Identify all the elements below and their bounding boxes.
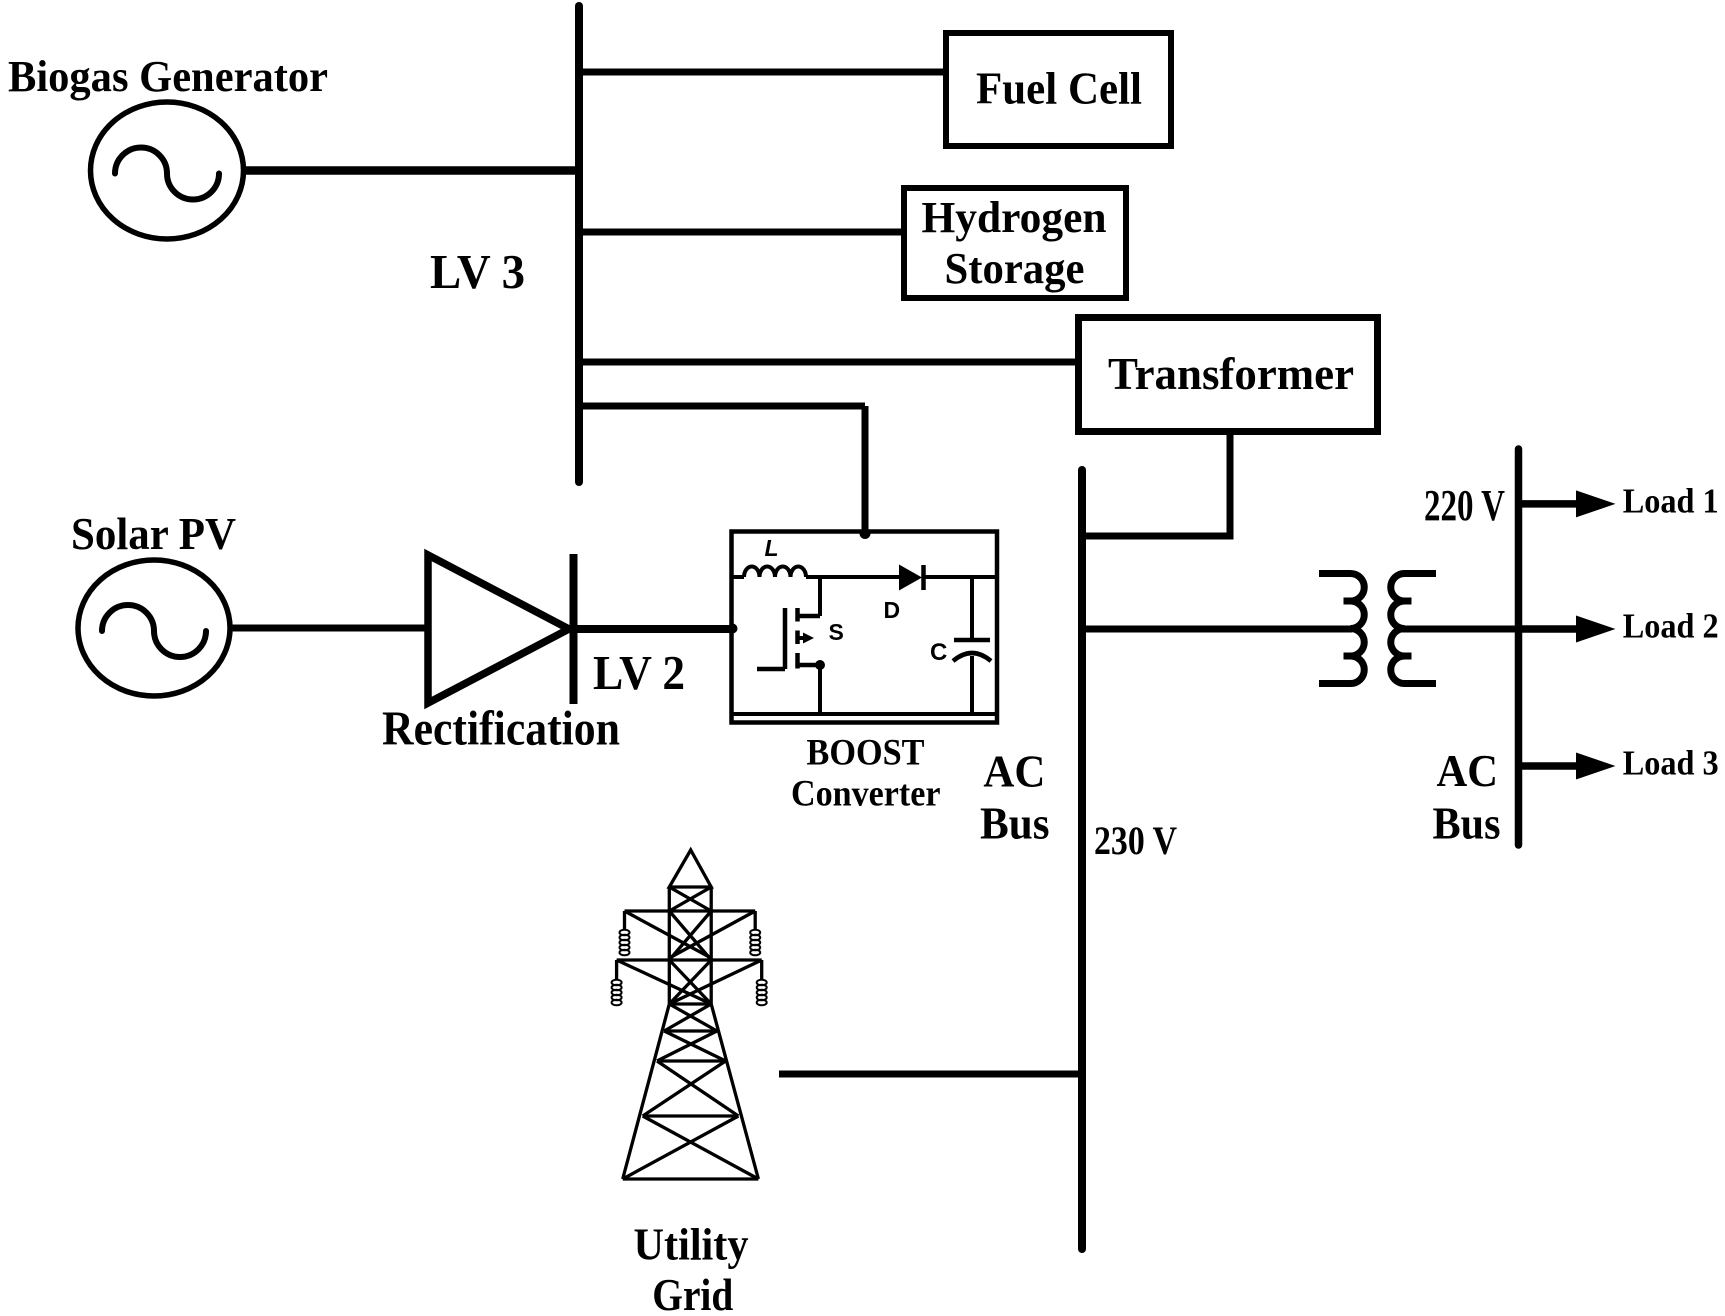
tower column X brace mid: [669, 911, 711, 960]
junction dot boost input: [728, 624, 738, 634]
tower column left: [668, 887, 671, 1004]
wire LV3 bus to Fuel Cell: [579, 69, 948, 76]
wire capacitor branch top: [970, 577, 974, 640]
wire boost top rail middle: [806, 575, 899, 579]
diode D triangle: [899, 565, 922, 591]
inductor L: [744, 567, 806, 578]
tower top box X brace: [669, 887, 711, 911]
wire capacitor branch bottom: [970, 656, 974, 714]
load 1 arrow head: [1576, 490, 1616, 517]
load 3 arrow head: [1576, 753, 1616, 780]
wire transformer box down: [1227, 432, 1234, 537]
capacitor C top plate: [954, 638, 990, 643]
generator G1 sine symbol: [115, 148, 219, 200]
wire switch branch source to rail: [818, 665, 822, 714]
capacitor C curved plate: [953, 653, 991, 661]
junction dot mosfet source: [815, 660, 825, 670]
wire solar to rectifier: [228, 625, 428, 632]
junction dot boost top: [860, 528, 871, 539]
wire boost top rail right: [922, 575, 995, 579]
svg-text:Rectification: Rectification: [382, 701, 620, 756]
tower X brace base: [623, 1116, 759, 1179]
svg-text:LV 2: LV 2: [593, 645, 685, 700]
svg-text:Grid: Grid: [652, 1270, 733, 1316]
rectifier triangle: [428, 555, 569, 703]
wire transformer T2 secondary to right AC bus: [1402, 626, 1520, 633]
utility grid tower: [617, 850, 762, 1179]
mosfet source lead: [798, 663, 820, 668]
tower X brace flared 2: [657, 1031, 726, 1061]
svg-text:230 V: 230 V: [1094, 818, 1177, 863]
svg-text:Converter: Converter: [791, 774, 941, 815]
bus AC right: [1515, 449, 1523, 845]
bus LV3: [575, 6, 583, 482]
load 2 arrow head: [1576, 616, 1616, 643]
wire AC bus to transformer T2 primary: [1082, 626, 1352, 633]
svg-text:Biogas Generator: Biogas Generator: [8, 52, 328, 101]
transformer T2 primary coil: [1319, 574, 1364, 684]
load 2 feeder wire: [1518, 625, 1585, 633]
tower lower left dropper: [615, 960, 618, 979]
svg-text:L: L: [765, 535, 779, 561]
tower lower right dropper: [760, 960, 763, 979]
transformer T2 secondary coil: [1391, 574, 1436, 684]
tower rung 1 flared: [664, 1029, 717, 1032]
wire biogas generator to LV3 bus: [242, 166, 580, 175]
svg-text:LV 3: LV 3: [430, 244, 525, 299]
wire LV3 bus to Hydrogen Storage: [579, 229, 906, 236]
svg-text:D: D: [884, 597, 901, 623]
bus AC middle: [1078, 470, 1086, 1249]
mosfet channel dash middle: [795, 631, 800, 645]
mosfet body arrow line: [798, 636, 804, 640]
hydrogen storage box: [904, 188, 1126, 298]
svg-text:Utility: Utility: [634, 1220, 749, 1270]
diode D cathode bar: [921, 565, 926, 590]
tower column right: [710, 887, 713, 1004]
bus LV2 bar: [570, 554, 578, 704]
boost inner bottom rail: [733, 712, 995, 716]
svg-text:Hydrogen: Hydrogen: [922, 193, 1107, 242]
tower apex: [669, 850, 711, 887]
svg-text:AC: AC: [1437, 746, 1499, 796]
insulator lower right: [757, 980, 767, 1006]
svg-text:C: C: [930, 639, 947, 666]
svg-text:Bus: Bus: [980, 799, 1050, 849]
insulator lower left: [612, 980, 622, 1006]
wire switch branch drain: [818, 577, 822, 616]
svg-text:Storage: Storage: [945, 244, 1085, 293]
svg-text:Load 1: Load 1: [1623, 482, 1719, 521]
wire LV3 bus to Transformer: [579, 359, 1080, 366]
mosfet gate lead: [757, 667, 785, 672]
mosfet body arrow head: [803, 633, 814, 644]
svg-text:Bus: Bus: [1433, 799, 1501, 849]
insulator upper right: [750, 930, 760, 956]
solar PV AC source circle: [78, 560, 230, 696]
tower rung 3 flared: [643, 1114, 739, 1117]
svg-text:Fuel Cell: Fuel Cell: [976, 63, 1142, 114]
tower base: [623, 1177, 759, 1180]
tower rung 2 flared: [657, 1059, 726, 1062]
svg-text:S: S: [829, 619, 844, 645]
tower upper arm diagonals: [625, 911, 756, 958]
svg-text:Load 2: Load 2: [1623, 607, 1719, 646]
svg-text:Solar PV: Solar PV: [71, 509, 236, 559]
transformer box: [1079, 318, 1378, 432]
tower X brace flared 3: [643, 1061, 739, 1116]
tower upper cross arm: [625, 909, 756, 912]
wire LV3 bus to boost (horizontal): [579, 403, 865, 410]
load 3 feeder wire: [1518, 762, 1585, 770]
boost converter box: [732, 532, 998, 723]
svg-text:BOOST: BOOST: [807, 733, 925, 774]
wire down to boost top: [862, 406, 869, 534]
svg-text:Load 3: Load 3: [1623, 744, 1719, 783]
wire transformer to AC bus: [1079, 533, 1234, 540]
tower lower arm diagonals: [617, 960, 762, 1004]
wire boost top rail left: [733, 575, 744, 579]
solar PV sine symbol: [102, 605, 206, 657]
svg-text:AC: AC: [983, 747, 1045, 797]
tower right leg: [711, 1004, 758, 1179]
load 1 feeder wire: [1518, 500, 1585, 508]
mosfet drain lead: [798, 614, 820, 619]
tower X brace flared 1: [664, 1004, 717, 1031]
mosfet channel dash top: [795, 608, 800, 622]
insulator upper left: [620, 930, 630, 956]
tower rung at column bottom: [669, 1002, 711, 1005]
tower upper left dropper: [623, 911, 626, 929]
svg-text:220 V: 220 V: [1424, 481, 1505, 530]
tower upper right dropper: [754, 911, 757, 929]
mosfet channel dash bottom: [795, 653, 800, 669]
tower column X brace lower: [669, 960, 711, 1004]
wire LV2 to boost input: [573, 625, 733, 633]
wire utility grid to AC bus: [779, 1071, 1082, 1078]
generator G1 biogas AC source circle: [91, 102, 244, 239]
fuel cell box: [946, 33, 1171, 146]
mosfet gate bar: [783, 608, 788, 669]
tower lower cross arm: [617, 958, 762, 961]
tower left leg: [623, 1004, 670, 1179]
svg-text:Transformer: Transformer: [1108, 348, 1354, 399]
